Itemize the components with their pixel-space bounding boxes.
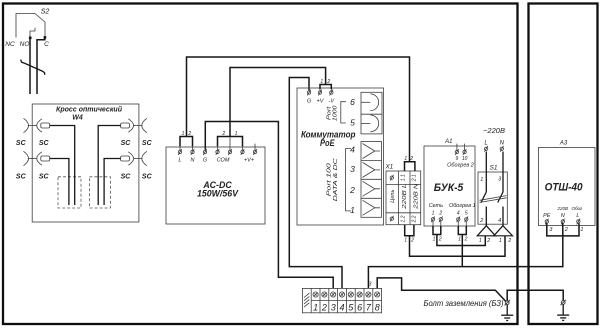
svg-text:А3: А3 [559,141,568,147]
wire S2 C to optical cross [37,38,45,94]
svg-text:S1: S1 [490,164,498,171]
~220V labels [483,126,505,152]
svg-text:2: 2 [486,238,490,244]
svg-text:2: 2 [438,237,442,243]
svg-text:DATA & DC: DATA & DC [333,158,339,201]
X1 top connector pins 1 2 [404,156,414,171]
PoE terminal G [307,90,312,105]
AC-DC terminal G [203,149,208,163]
terminal strip [302,288,381,312]
PoE port 6 symbol [350,94,379,111]
svg-text:NO: NO [20,41,30,48]
svg-text:S2: S2 [41,9,50,16]
svg-text:4: 4 [339,302,344,312]
BUK-5 controller A1 [424,139,476,226]
svg-text:Болт заземления (БЗ): Болт заземления (БЗ) [424,299,504,308]
svg-text:1: 1 [235,131,238,137]
svg-text:1: 1 [404,238,407,244]
PoE terminal +V [317,90,325,105]
SC adapter top-right [121,118,153,147]
PoE port 3 symbol [350,162,380,177]
svg-text:3: 3 [369,281,372,287]
wire BUK Set to S1 left pole plug [437,235,485,246]
PoE port 4 symbol [350,144,380,159]
svg-text:Сеть: Сеть [429,203,444,209]
svg-text:2.2: 2.2 [412,215,418,223]
BUK-5 Obogrev1 connector pins 1 2 [458,226,467,243]
svg-text:5: 5 [350,118,355,128]
svg-text:2: 2 [349,185,355,195]
wire AC-DC output to PoE power [230,68,326,137]
terminal block X1 [384,164,420,225]
svg-text:150W/56V: 150W/56V [197,189,239,199]
svg-text:2: 2 [326,79,330,85]
svg-text:4: 4 [457,211,460,217]
svg-text:1: 1 [433,237,436,243]
svg-text:1: 1 [350,205,355,215]
svg-text:+V+: +V+ [244,158,255,164]
ground symbol right cabinet [557,305,569,321]
svg-text:G: G [307,99,312,105]
svg-text:2.1: 2.1 [412,174,418,182]
svg-text:~220В: ~220В [483,126,505,135]
svg-text:220В L: 220В L [402,184,408,210]
fiber wire bottom-left [50,159,69,206]
fiber wire top-left [50,126,75,206]
BUK-5 Set connector pins 1 2 [433,226,442,243]
PoE power connector pins 1 2 [320,79,331,91]
PoE port 5 symbol [350,115,379,132]
svg-text:1: 1 [432,211,435,217]
svg-text:L: L [576,213,579,219]
AC-DC terminals COM [216,137,232,163]
wire BUK Obogrev1 down to heater line [461,235,463,267]
jumper OTSh PE to L [547,223,579,236]
svg-text:2: 2 [409,156,413,162]
svg-text:Кросс оптический: Кросс оптический [56,105,123,113]
wire S2 NO to optical cross [29,39,31,95]
heater OTSh-40 A3 [539,141,596,234]
PoE terminal -V [329,90,336,105]
splice tray left (dashed) [58,177,81,208]
svg-text:SC: SC [16,173,27,180]
svg-text:2: 2 [410,238,414,244]
strip screws 1-8 [313,292,380,297]
svg-text:Цепь: Цепь [390,190,396,203]
svg-text:Обогрев 1: Обогрев 1 [449,203,476,209]
grounding bolt screw [505,300,510,305]
Port 1000 bracket and label [327,102,346,123]
svg-text:3: 3 [331,302,336,312]
circuit breaker S1 [478,152,507,226]
Port 100 DATA & DC bracket and label [327,149,352,211]
svg-text:1: 1 [182,131,185,137]
svg-text:Обог: Обог [572,206,584,211]
svg-text:4: 4 [350,145,355,155]
splice tray right (dashed) [89,177,110,208]
svg-text:SC: SC [142,173,153,180]
svg-text:2: 2 [507,238,511,244]
svg-text:1: 1 [499,238,502,244]
svg-text:3: 3 [350,164,355,174]
SC adapter top-left [16,118,50,147]
svg-text:1: 1 [480,177,483,183]
AC-DC power supply 150W/56V [166,147,265,224]
PoE port 2 symbol [349,181,380,196]
svg-text:G: G [203,158,208,164]
svg-text:220В N: 220В N [413,184,419,210]
svg-text:SC: SC [121,173,132,180]
PoE switch box [297,88,384,225]
X1 bottom connector pins 1 2 [404,225,414,244]
svg-text:ОТШ-40: ОТШ-40 [545,182,584,194]
svg-text:1: 1 [479,238,482,244]
svg-text:220В: 220В [557,206,569,211]
svg-text:COM: COM [217,158,230,164]
wire heater line: strip cell 7 to BUK Obogrev1 to OTSh N [368,223,562,288]
svg-text:SC: SC [16,140,27,147]
svg-text:1: 1 [580,227,583,233]
svg-text:2: 2 [221,131,225,137]
svg-text:SC: SC [142,140,153,147]
svg-text:2: 2 [564,227,568,233]
svg-text:2: 2 [464,237,468,243]
enclosure right cabinet border [529,4,598,325]
svg-text:SC: SC [39,173,50,180]
svg-text:БУК-5: БУК-5 [434,182,464,194]
svg-text:L: L [178,158,181,164]
AC-DC output connector pins 2 1 [218,131,243,151]
switch S2 [5,9,49,49]
svg-text:1: 1 [320,79,323,85]
fiber wire bottom-right [104,159,121,206]
svg-text:4: 4 [498,218,501,224]
wire AC-DC input to X1 (220V) [187,57,410,162]
fiber wire top-right [98,126,120,206]
SC adapter bottom-right [121,151,153,180]
PoE port 1 symbol [350,200,380,215]
PoE port 1000 group cells [361,92,382,134]
svg-text:L: L [484,140,487,146]
svg-text:9: 9 [456,156,459,162]
svg-text:SC: SC [121,140,132,147]
svg-text:1: 1 [458,237,461,243]
svg-text:C: C [44,41,49,48]
wire strip cell 8 to grounding bolt [377,278,505,301]
svg-text:6: 6 [357,302,362,312]
AC-DC terminals +V [241,144,257,164]
cable group marker [21,60,45,75]
svg-text:N: N [500,140,505,146]
svg-text:6: 6 [350,97,355,107]
SC adapter bottom-left [16,151,50,180]
svg-text:X1: X1 [384,164,393,171]
AC-DC terminal N [191,149,195,163]
svg-text:2: 2 [479,218,483,224]
svg-text:А1: А1 [444,139,452,145]
svg-text:1: 1 [313,302,318,312]
PoE port 100 group cells [361,142,382,218]
plug connector under S1 pin 2 [477,226,495,244]
svg-text:SC: SC [39,140,50,147]
optical cross W4 box [32,104,139,222]
wire X1 to S1 right pole plug [410,236,506,257]
plug connector under S1 pin 4 [494,226,513,244]
AC-DC terminal L [178,149,181,163]
svg-text:1.1: 1.1 [400,174,406,181]
svg-text:NC: NC [5,41,15,48]
AC-DC input connector pins 1 2 [180,131,193,151]
svg-text:10: 10 [462,156,468,162]
svg-text:8: 8 [375,302,380,312]
svg-text:N: N [561,213,565,219]
ground symbol main [501,305,513,321]
svg-text:2: 2 [438,211,442,217]
wire PoE G to strip cell 4 (earth) [289,78,342,289]
svg-text:N: N [191,158,195,164]
svg-text:2: 2 [187,131,191,137]
svg-text:Обогрев 2: Обогрев 2 [447,163,474,169]
svg-text:1.2: 1.2 [400,215,406,222]
wire bolt to right cabinet ground [507,290,563,300]
svg-text:PE: PE [543,213,551,219]
ground screw right cabinet [561,300,566,305]
svg-text:1: 1 [404,156,407,162]
svg-text:W4: W4 [72,114,83,121]
svg-text:PoE: PoE [320,138,335,149]
svg-text:Port 100: Port 100 [327,162,333,196]
svg-text:2: 2 [321,302,327,312]
wire AC-DC G to strip cell 3 (earth) [205,122,333,289]
strip numbers 1-8 [313,302,380,312]
svg-text:5: 5 [465,211,468,217]
svg-text:1000: 1000 [332,104,338,121]
